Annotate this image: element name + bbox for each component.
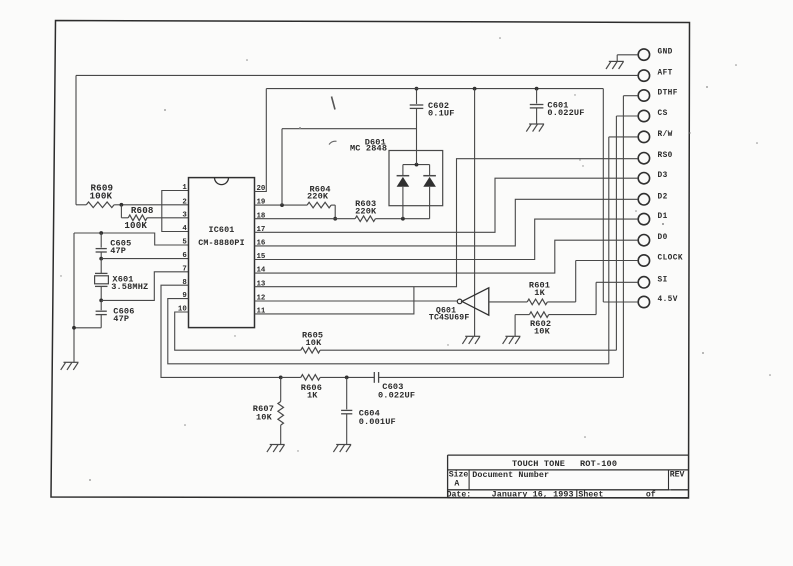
svg-text:3.58MHZ: 3.58MHZ [111,282,148,292]
svg-text:0.022UF: 0.022UF [378,390,415,400]
svg-text:47P: 47P [110,246,126,256]
capacitor C606 [96,300,135,327]
title block [447,455,689,500]
wire gate output [489,301,527,303]
node SI connector [638,276,667,288]
junction C604 tap [345,376,349,380]
ground (Q601) [462,336,480,344]
svg-text:R/W: R/W [658,131,673,139]
node D1 connector [638,213,667,225]
svg-text:Sheet: Sheet [578,490,603,500]
wire GND port [617,55,638,62]
node D3 connector [638,172,667,184]
wire pin10 line [175,312,301,350]
wire C603 to DTHF riser [379,96,624,378]
svg-text:R608: R608 [131,205,154,216]
wire pin9 line [168,299,609,364]
wire CS [616,115,638,117]
wire R608 to IC pin 3 [147,217,188,219]
node AFT connector [638,70,673,82]
svg-text:January 16, 1993: January 16, 1993 [492,490,574,500]
svg-text:of: of [646,490,656,500]
wire pin9 riser to R/W [609,137,638,364]
capacitor C605 [96,233,132,259]
svg-text:47P: 47P [113,314,129,324]
wire to R606 [281,376,301,378]
wire C606 to rail [74,327,101,329]
svg-text:IC601: IC601 [209,225,235,235]
junction pin19 riser [280,203,284,207]
inverter Q601 TC4SU69F [429,288,489,323]
svg-text:CM-8880PI: CM-8880PI [198,238,245,248]
wire pin15 to D1 [255,219,638,259]
svg-text:6: 6 [182,252,187,260]
wire R602 to ground [515,315,529,337]
resistor R602 [529,312,596,337]
resistor R607 [253,377,284,444]
wire pin19 line [255,204,308,206]
junction gate vdd tap [473,87,477,91]
svg-text:SI: SI [658,276,668,284]
wire pin5 to C605 node [74,233,189,245]
svg-text:10K: 10K [534,326,551,336]
ground (R602) [503,336,521,344]
junction rail/C606 [72,326,76,330]
svg-text:100K: 100K [124,220,147,231]
node 4.5V connector [638,296,678,308]
svg-text:3: 3 [182,211,187,219]
junction C602 top [415,87,419,91]
node DTHF connector [638,90,678,102]
svg-text:D0: D0 [658,234,668,242]
junction C605 bottom / pin6 [99,257,103,261]
wire AFT to R609 (top left run) [76,75,638,204]
resistor R604 [307,184,335,208]
node D2 connector [638,193,667,205]
wire R601 to CLOCK riser [547,261,575,302]
ground (GND port) [606,61,624,69]
resistor R603 [355,199,377,221]
svg-text:0.001UF: 0.001UF [359,417,396,427]
wire pin17 to D3 [255,178,638,232]
capacitor C603 [374,372,415,400]
svg-text:10K: 10K [306,338,323,348]
capacitor C601 [530,89,585,124]
wire SI riser [596,282,638,314]
node RS0 connector [638,152,673,164]
ground (C601) [526,124,544,132]
svg-text:220K: 220K [355,206,377,216]
node R/W connector [638,131,673,143]
junction R608 tap [120,203,124,207]
wire R606 to C603 [320,376,374,378]
node GND connector [638,49,673,61]
junction C605 top [99,231,103,235]
svg-text:A: A [454,480,459,489]
svg-text:TC4SU69F: TC4SU69F [429,313,470,322]
wire pin13 to RS0 [255,159,638,287]
ground (R607) [267,445,285,453]
wire pin11 riser [255,287,414,314]
wire top rail [266,88,603,90]
op-amp U1 IC601 CM-8880PI (DIP-20) [178,178,266,328]
svg-text:4.5V: 4.5V [658,296,678,304]
resistor R609 [76,182,121,207]
wire pin16 to D2 [255,199,638,246]
svg-text:MC 2848: MC 2848 [350,144,387,154]
svg-text:4: 4 [182,225,187,233]
capacitor C604 [341,377,396,444]
resistor R601 [527,280,550,304]
wire pin19 riser to C602 node [282,129,417,205]
svg-text:0.1UF: 0.1UF [428,109,455,119]
svg-text:AFT: AFT [658,70,673,78]
wire pin8 line [161,285,281,377]
svg-text:RS0: RS0 [658,152,673,160]
junction C601 top [535,87,539,91]
junction X601 bottom / pin7 [99,299,103,303]
svg-text:5: 5 [182,239,187,247]
wire pin20 to top rail [255,89,267,192]
wire DTHF [623,95,638,97]
resistor R606 [301,375,322,401]
svg-text:10K: 10K [256,413,273,423]
junction R607 tap [279,376,283,380]
wire R609 to IC pin 2 [121,204,188,206]
svg-text:1K: 1K [307,391,318,401]
svg-text:220K: 220K [307,192,329,202]
svg-text:Document Number: Document Number [472,470,549,480]
resistor R608 [121,205,153,231]
svg-text:D1: D1 [658,213,668,221]
diode pair D601 MC2848 [350,138,443,219]
wire pin14 to D0 [255,240,638,273]
svg-text:1K: 1K [534,288,545,298]
svg-text:TOUCH TONE: TOUCH TONE [512,459,565,469]
svg-text:REV: REV [670,471,685,480]
capacitor C602 [410,89,455,165]
node CLOCK connector [638,255,683,267]
wire IC pin1 to pin4 jumper [162,191,189,232]
svg-text:Date:: Date: [447,491,472,500]
wire C605 to IC pin 6 [101,258,188,260]
ground (crystal rail) [61,362,79,370]
wire X601 to IC pin 7 [101,272,188,301]
junction diode D601a anode [401,217,405,221]
wire R603 to diodes [375,218,429,220]
svg-text:D3: D3 [658,172,668,180]
wire left ground rail [73,233,75,362]
svg-text:1: 1 [182,184,187,192]
wire top rail down to gate ground [474,89,476,337]
svg-text:100K: 100K [90,190,113,201]
crystal X601 [95,259,149,301]
svg-text:DTHF: DTHF [658,90,678,98]
svg-text:CLOCK: CLOCK [658,255,683,263]
svg-text:ROT-100: ROT-100 [580,459,617,469]
wire R605 line to CS riser [320,116,616,350]
wire pin18 line [255,218,356,220]
svg-text:GND: GND [658,49,673,57]
wire pin12 to gate input [255,300,458,302]
svg-text:7: 7 [182,265,186,273]
svg-text:Size: Size [449,470,469,480]
resistor R605 [301,330,323,353]
sheet border frame [51,21,690,499]
svg-text:CS: CS [658,110,668,118]
node D0 connector [638,234,667,246]
wire top rail down to 4.5V [603,89,638,302]
svg-text:2: 2 [182,198,186,206]
wire R604 down to pin18 line [334,205,336,219]
svg-text:D2: D2 [658,193,668,201]
wire CLOCK [576,260,638,262]
junction R604/pin18 [333,217,337,221]
node CS connector [638,110,667,122]
svg-text:0.022UF: 0.022UF [547,108,584,118]
ground (C604) [333,445,351,453]
